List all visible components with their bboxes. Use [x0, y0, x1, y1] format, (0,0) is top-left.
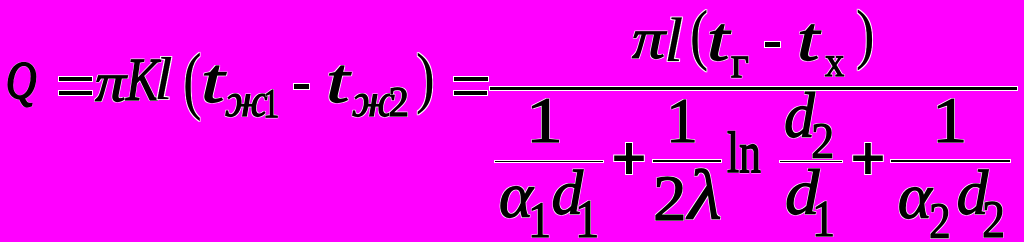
small fraction bar 1	[495, 161, 603, 163]
paren-close-2	[856, 1, 874, 68]
subscript zh-2	[352, 79, 395, 126]
subscript 1 of d-1a	[575, 193, 599, 242]
subscript 1 of alpha-1	[528, 195, 551, 242]
small fraction bar 4	[891, 160, 1010, 162]
subscript zh-1	[225, 79, 268, 126]
equals-1 top bar	[59, 77, 92, 81]
subscript 2 of d-3	[982, 194, 1005, 242]
paren-open-1	[183, 43, 201, 118]
pi-2	[632, 11, 665, 68]
t-3	[707, 9, 729, 71]
small fraction bar 3	[780, 161, 842, 163]
minus-1	[294, 84, 309, 89]
coefficient K	[126, 50, 159, 112]
subscript two after zh-2	[388, 83, 409, 125]
lambda	[688, 160, 722, 231]
d-2 numerator	[784, 84, 815, 148]
t-1	[201, 49, 224, 113]
subscript ha (cold)	[825, 42, 844, 85]
d-1 denominator	[785, 161, 819, 226]
alpha-2	[898, 165, 932, 230]
one over alpha1 d1	[526, 89, 563, 154]
one over 2lambda	[666, 89, 698, 153]
subscript one after zh-1	[263, 83, 279, 124]
subscript 2 of alpha-2	[929, 196, 951, 242]
ln operator	[727, 124, 761, 182]
equals-2 top bar	[454, 77, 488, 81]
d-3	[957, 162, 989, 225]
l-1	[154, 49, 173, 109]
one over alpha2 d2	[932, 89, 967, 153]
main fraction bar	[490, 87, 1017, 90]
pi-1	[95, 55, 126, 110]
plus-1	[614, 143, 644, 174]
subscript 1 of d-1den	[812, 194, 835, 242]
small fraction bar 2	[653, 160, 721, 162]
l-2	[664, 10, 683, 72]
plus-2	[853, 143, 883, 174]
t-2	[326, 49, 349, 113]
two of 2lambda	[653, 166, 687, 231]
subscript 2 of d-2num	[811, 116, 834, 167]
paren-open-2	[690, 1, 708, 68]
d-1a	[552, 162, 584, 225]
equals-2 bottom bar	[454, 91, 487, 94]
subscript ge (hot)	[731, 41, 749, 85]
alpha-1	[499, 164, 533, 229]
t-4	[797, 9, 819, 71]
equals-1 bottom bar	[59, 91, 92, 95]
minus-2	[765, 42, 780, 47]
variable Q	[6, 55, 36, 108]
paren-close-1	[416, 44, 435, 112]
